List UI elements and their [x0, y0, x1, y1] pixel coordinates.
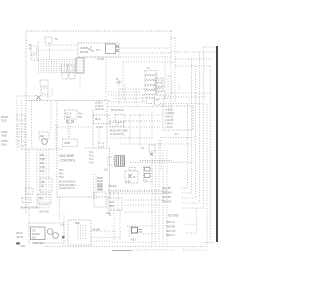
thermostat TH1: [155, 95, 165, 105]
wire: [117, 192, 119, 213]
staircase wire: [182, 202, 200, 204]
wire: [118, 80, 120, 106]
left harness line: [21, 100, 23, 150]
bus wire: [130, 161, 193, 163]
vertical bus: [203, 47, 205, 208]
power board border: [106, 103, 108, 147]
wire: [158, 150, 160, 245]
staircase wire: [182, 197, 196, 199]
wire: [108, 106, 171, 108]
cabinet dashed border: [26, 31, 172, 213]
wire: [119, 210, 121, 240]
vertical bus: [191, 59, 193, 193]
wire: [125, 211, 155, 213]
svg-text:TB2-5 GY: TB2-5 GY: [166, 221, 176, 224]
bus wire: [108, 192, 168, 194]
wire: [160, 103, 204, 105]
wire: [196, 208, 198, 233]
dispenser dashed box: [68, 220, 91, 245]
water valve coil L2: [53, 233, 59, 239]
page edge shadow: [216, 46, 218, 242]
transformer T2: [115, 156, 125, 167]
wire labels row: [110, 130, 128, 136]
wire: [25, 150, 27, 207]
terminal block TB1: [45, 37, 52, 59]
wire: [120, 143, 160, 145]
svg-text:FAN: FAN: [40, 135, 45, 138]
svg-text:XFMR: XFMR: [64, 142, 70, 145]
wire: [108, 91, 140, 93]
wire: [162, 150, 164, 245]
wire: [84, 56, 171, 58]
partition line: [22, 148, 62, 150]
board terminal labels: [59, 169, 64, 179]
svg-text:12 14 16 18 10: 12 14 16 18 10: [110, 133, 124, 136]
wire: [155, 150, 157, 245]
svg-text:RLY-2: RLY-2: [95, 118, 101, 121]
wire: [164, 56, 166, 100]
wire: [125, 204, 160, 206]
wire: [115, 97, 171, 99]
vertical bus: [199, 52, 201, 203]
ice maker module: [31, 227, 46, 240]
wire: [91, 236, 122, 238]
svg-text:2-4A: 2-4A: [126, 181, 131, 184]
wire: [63, 214, 65, 246]
svg-text:92-3 BU: 92-3 BU: [93, 229, 101, 232]
bus wire: [108, 189, 168, 191]
svg-text:A-1 B-2: A-1 B-2: [96, 126, 104, 129]
ice maker dashed box: [29, 223, 64, 243]
wire: [165, 96, 207, 98]
nested corner: [171, 80, 173, 93]
board pin labels: [89, 151, 94, 165]
relay K3: [65, 110, 78, 123]
svg-text:92-5G: 92-5G: [168, 214, 179, 218]
svg-text:TB2-6 RD: TB2-6 RD: [166, 226, 176, 229]
wire: [131, 249, 175, 251]
wire bundle: [38, 60, 76, 73]
board wire labels: [59, 181, 77, 191]
wire: [38, 49, 78, 51]
wire: [166, 150, 168, 245]
fuse F1 labels: [78, 113, 83, 120]
svg-text:MOTOR: MOTOR: [80, 51, 88, 54]
vertical bus: [174, 38, 176, 103]
wire: [91, 230, 117, 232]
vertical bus: [195, 66, 197, 198]
svg-text:WH-16: WH-16: [17, 236, 24, 239]
node: [62, 236, 65, 239]
wire: [135, 89, 137, 106]
connector cluster CN5: [94, 185, 110, 216]
wire: [127, 225, 156, 227]
wire: [156, 85, 165, 87]
wire: [55, 125, 57, 148]
node labels: [116, 78, 122, 85]
svg-text:15A: 15A: [78, 116, 82, 119]
switch S3: [40, 178, 52, 192]
bottom dashed border: [44, 245, 208, 247]
svg-text:3-BU: 3-BU: [40, 162, 45, 165]
left harness line: [16, 100, 18, 150]
wire: [130, 114, 162, 116]
timer TM1: [144, 166, 153, 183]
wire: [31, 101, 33, 148]
run capacitor C2: [106, 44, 116, 54]
wire: [121, 52, 171, 54]
condenser fan motor M1: [39, 132, 49, 144]
valve labels: [17, 232, 24, 239]
svg-text:BK-14: BK-14: [17, 232, 24, 235]
compressor C1: [78, 43, 119, 57]
svg-text:GND: GND: [21, 245, 26, 248]
svg-text:12-3A: 12-3A: [1, 120, 7, 123]
wire: [122, 62, 124, 100]
staircase wire: [182, 187, 188, 189]
svg-text:DISP: DISP: [75, 222, 80, 225]
wire: [67, 123, 69, 139]
wire: [98, 128, 100, 143]
relay board box: [94, 115, 110, 129]
staircase wire: [182, 207, 204, 209]
splice S2: [110, 123, 124, 127]
wire: [160, 143, 190, 145]
capacitor C3: [142, 145, 156, 156]
nested corner: [178, 82, 180, 90]
svg-text:VALVE 92-1: VALVE 92-1: [33, 242, 45, 245]
board connector CN1: [93, 169, 108, 201]
wire: [120, 88, 160, 90]
wire color labels: [1, 116, 9, 147]
svg-text:BK-WH-12 GA OR-2: BK-WH-12 GA OR-2: [21, 207, 40, 210]
start relay K4: [31, 46, 37, 60]
wire: [160, 140, 162, 170]
wire: [123, 61, 175, 63]
relay bank K1: [145, 67, 157, 96]
connector J2: [76, 58, 84, 73]
wire: [110, 137, 150, 139]
svg-text:TB2-2 WH: TB2-2 WH: [162, 192, 172, 195]
svg-text:5-2 16A: 5-2 16A: [97, 58, 105, 61]
wire: [143, 233, 155, 235]
connector J3: [61, 65, 80, 90]
wire: [151, 150, 153, 245]
splice: [98, 143, 104, 147]
wire: [45, 44, 78, 46]
wire: [59, 197, 61, 220]
junction box JB1: [115, 115, 125, 123]
inlet box: [108, 157, 114, 165]
wire: [156, 79, 165, 81]
wire: [151, 112, 153, 141]
splice blocks: [17, 115, 25, 146]
wire: [113, 192, 115, 240]
svg-text:TB2-8 VT: TB2-8 VT: [166, 234, 175, 237]
machine control board U1: [57, 148, 110, 197]
terminal strip TB2: [40, 154, 46, 173]
wire: [69, 123, 71, 139]
bus wire: [140, 160, 172, 162]
vertical bus: [210, 66, 212, 242]
wire: [183, 249, 207, 251]
svg-text:240V: 240V: [66, 116, 71, 119]
wire: [156, 90, 165, 92]
aux board A1: [108, 198, 122, 210]
wire: [110, 120, 160, 122]
transformer T1: [63, 139, 78, 147]
wire: [91, 240, 112, 242]
wire: [128, 226, 130, 237]
wire: [108, 94, 171, 96]
wire: [112, 241, 156, 243]
power board border: [56, 101, 58, 198]
overload relay OL1: [125, 168, 138, 184]
wire: [139, 115, 141, 148]
harness bundle left: [37, 150, 49, 210]
wire: [165, 92, 210, 94]
water valve coil L1: [47, 229, 53, 235]
power board inner rail: [92, 110, 94, 147]
nested corner: [168, 76, 171, 90]
svg-text:CONTROL: CONTROL: [60, 158, 76, 162]
wire: [171, 51, 216, 53]
svg-text:5-GY: 5-GY: [40, 170, 45, 173]
wire: [28, 150, 30, 222]
heater H1: [131, 227, 143, 241]
terminal list: [162, 187, 172, 204]
svg-text:HTR-240: HTR-240: [108, 185, 117, 188]
partition line: [26, 100, 110, 102]
svg-text:Y GY 11: Y GY 11: [165, 126, 173, 129]
right junction box JB2: [163, 106, 193, 130]
terminal list: [166, 221, 176, 237]
wire: [37, 42, 39, 62]
wire: [185, 223, 197, 225]
wire: [160, 137, 195, 139]
svg-text:TB2-3 BU: TB2-3 BU: [162, 196, 171, 199]
svg-text:GN-18 VT-9 YL-5: GN-18 VT-9 YL-5: [59, 187, 75, 190]
svg-text:BK-16 WH-12: BK-16 WH-12: [111, 109, 124, 112]
svg-text:4-OR: 4-OR: [40, 166, 45, 169]
relay bank K2: [155, 78, 163, 92]
vertical bus: [187, 104, 189, 188]
svg-text:TH: TH: [156, 99, 159, 102]
connector P1: [116, 45, 119, 52]
wire: [204, 46, 217, 48]
bus wire: [108, 191, 168, 193]
plug P2: [40, 80, 48, 100]
svg-text:TB2-1 BK: TB2-1 BK: [162, 187, 171, 190]
wire: [120, 47, 171, 49]
wire: [124, 84, 126, 102]
line terminal labels: [95, 102, 104, 112]
wire: [158, 140, 160, 150]
door switch S1: [16, 88, 52, 100]
wire: [57, 126, 93, 128]
wire: [105, 57, 107, 100]
svg-text:14-2B: 14-2B: [1, 135, 7, 138]
vertical bus: [206, 104, 208, 246]
wire: [175, 58, 214, 60]
svg-text:VOLT: VOLT: [131, 238, 137, 241]
switch S4: [38, 194, 51, 204]
wire: [186, 232, 197, 234]
svg-text:16-4C: 16-4C: [1, 144, 7, 147]
splice block: [22, 198, 31, 203]
vertical bus: [170, 31, 172, 115]
wire: [109, 192, 111, 213]
svg-text:TB2-7 GN: TB2-7 GN: [166, 230, 176, 233]
wire: [142, 95, 144, 102]
svg-text:BU-14 GA: BU-14 GA: [40, 211, 50, 214]
ground: [16, 242, 20, 244]
wire: [110, 126, 160, 128]
staircase wire: [182, 192, 192, 194]
dispenser module: [75, 222, 86, 240]
svg-text:TB2-4 OR: TB2-4 OR: [162, 201, 172, 204]
wire: [50, 101, 52, 131]
right bus corner: [171, 37, 175, 39]
svg-text:2-WH: 2-WH: [40, 158, 46, 161]
wire: [175, 65, 210, 67]
wire: [205, 242, 216, 244]
pressure switch PS1: [147, 98, 155, 104]
wire: [108, 101, 145, 103]
splice block: [26, 188, 34, 194]
wire: [112, 249, 131, 251]
svg-text:GND GN: GND GN: [95, 108, 104, 111]
wire: [129, 115, 131, 144]
svg-text:1-BK: 1-BK: [40, 154, 45, 157]
wire: [125, 199, 168, 201]
svg-text:COMPR: COMPR: [80, 47, 88, 50]
wire: [123, 122, 125, 138]
